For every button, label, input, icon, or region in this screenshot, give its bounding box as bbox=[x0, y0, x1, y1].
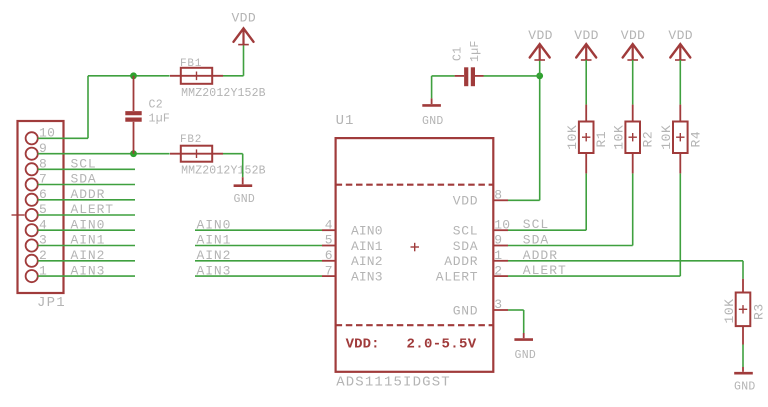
svg-text:1µF: 1µF bbox=[149, 112, 171, 125]
resistor R2 bbox=[625, 105, 640, 174]
label GND below U1 bbox=[515, 349, 537, 362]
net label AIN1 middle bbox=[197, 233, 232, 248]
power VDD symbol above R1 bbox=[576, 44, 596, 60]
net label ADDR right bbox=[523, 248, 558, 263]
svg-text:R1: R1 bbox=[594, 131, 609, 148]
JP1 pin 1 circle bbox=[26, 270, 38, 282]
U1 pin number 10 bbox=[494, 217, 510, 232]
svg-text:VDD: VDD bbox=[453, 194, 479, 209]
JP1 pin 9 circle bbox=[26, 148, 38, 160]
wire pin10 to VDD rail (net VDD) bbox=[38, 76, 134, 139]
svg-text:ADS1115IDGST: ADS1115IDGST bbox=[336, 375, 451, 391]
JP1 pin 9 number bbox=[39, 141, 47, 156]
net label AIN0 middle bbox=[197, 217, 232, 232]
U1 pin name AIN2 bbox=[351, 254, 383, 269]
svg-text:GND: GND bbox=[453, 303, 479, 318]
svg-text:2.0-5.5V: 2.0-5.5V bbox=[407, 337, 477, 353]
U1 pin number 7 bbox=[325, 263, 333, 278]
ferrite bead FB2 bbox=[170, 146, 223, 162]
svg-text:VDD: VDD bbox=[668, 28, 693, 43]
JP1 origin tick bbox=[12, 214, 25, 216]
ground symbol below U1 bbox=[514, 338, 533, 341]
resistor R3 bbox=[736, 293, 751, 327]
wire U1 pin3 to GND bbox=[493, 310, 523, 338]
JP1 pin 8 circle bbox=[26, 163, 38, 175]
svg-text:SDA: SDA bbox=[523, 233, 549, 248]
svg-text:10K: 10K bbox=[612, 125, 627, 150]
label GND left of C1 bbox=[422, 115, 444, 128]
svg-text:R2: R2 bbox=[641, 131, 656, 148]
net label AIN2 middle bbox=[197, 248, 232, 263]
value 1uF of C1 (rotated) bbox=[469, 40, 482, 62]
label R1 (rotated) bbox=[594, 131, 609, 148]
svg-text:AIN0: AIN0 bbox=[197, 217, 232, 232]
wire net ALERT from U1 pin2 to R4 bbox=[493, 173, 680, 276]
value 1uF of C2 bbox=[149, 112, 171, 125]
svg-text:ADDR: ADDR bbox=[71, 187, 106, 202]
U1 pin name SCL bbox=[453, 224, 479, 239]
label C1 (rotated) bbox=[452, 47, 465, 61]
U1 pin name AIN0 bbox=[351, 224, 383, 239]
power VDD symbol above C1 bbox=[530, 44, 550, 60]
wire net ADDR from JP1 bbox=[38, 199, 135, 201]
svg-text:R4: R4 bbox=[688, 131, 703, 148]
svg-text:10K: 10K bbox=[722, 298, 737, 323]
wire FB1 to VDD symbol bbox=[223, 45, 244, 76]
svg-text:ADDR: ADDR bbox=[523, 248, 558, 263]
junction node at C2 top bbox=[130, 72, 137, 79]
svg-text:1µF: 1µF bbox=[469, 40, 482, 62]
ground symbol below R3 bbox=[734, 372, 753, 375]
wire net AIN2 to U1 bbox=[195, 260, 336, 262]
op-amp/IC U1 body bbox=[336, 138, 494, 372]
wire net SCL from JP1 bbox=[38, 168, 135, 170]
wire net ALERT from JP1 bbox=[38, 214, 135, 216]
wire net SCL from U1 pin10 to R1 bbox=[493, 173, 586, 230]
JP1 pin 7 circle bbox=[26, 178, 38, 190]
svg-text:ADDR: ADDR bbox=[444, 254, 478, 269]
JP1 pin 3 number bbox=[39, 233, 47, 248]
junction node at C1/VDD bbox=[536, 73, 543, 80]
svg-text:AIN3: AIN3 bbox=[71, 263, 106, 278]
value ADS1115IDGST bbox=[336, 375, 451, 391]
net label ALERT left bbox=[71, 202, 115, 217]
svg-text:AIN1: AIN1 bbox=[351, 239, 383, 254]
wire R3 to GND bbox=[742, 326, 744, 372]
U1 pin number 6 bbox=[325, 248, 333, 263]
svg-text:4: 4 bbox=[325, 217, 333, 232]
wire net SDA from JP1 bbox=[38, 184, 135, 186]
svg-text:GND: GND bbox=[515, 349, 537, 362]
svg-text:AIN0: AIN0 bbox=[351, 224, 383, 239]
svg-text:SCL: SCL bbox=[453, 224, 479, 239]
connector JP1 body bbox=[18, 121, 64, 293]
wire VDD to R1 bbox=[585, 60, 587, 105]
JP1 pin 6 number bbox=[39, 187, 47, 202]
label VDD top-left bbox=[231, 11, 256, 26]
label R3 (rotated) bbox=[752, 303, 767, 320]
U1 pin name ALERT bbox=[436, 270, 479, 285]
svg-text:VDD: VDD bbox=[231, 11, 256, 26]
capacitor C2 bbox=[125, 76, 141, 154]
svg-text:ALERT: ALERT bbox=[71, 202, 115, 217]
net label ADDR left bbox=[71, 187, 106, 202]
svg-text:6: 6 bbox=[325, 248, 333, 263]
wire net AIN2 from JP1 bbox=[38, 260, 135, 262]
svg-text:JP1: JP1 bbox=[37, 295, 66, 311]
net label SDA left bbox=[71, 172, 97, 187]
wire net SDA from U1 pin9 to R2 bbox=[493, 173, 632, 245]
svg-text:MMZ2012Y152B: MMZ2012Y152B bbox=[181, 87, 266, 100]
label C2 bbox=[149, 99, 163, 112]
svg-text:7: 7 bbox=[325, 263, 333, 278]
U1 pin number 9 bbox=[494, 233, 502, 248]
JP1 pin 1 number bbox=[39, 263, 47, 278]
svg-text:SCL: SCL bbox=[523, 217, 549, 232]
JP1 pin 2 number bbox=[39, 248, 47, 263]
power VDD symbol top-left bbox=[234, 28, 254, 44]
svg-text:VDD: VDD bbox=[574, 28, 599, 43]
U1 pin name VDD bbox=[453, 194, 479, 209]
power VDD symbol above R2 bbox=[623, 44, 643, 60]
U1 origin cross bbox=[411, 243, 420, 252]
wire VDD pin8 to VDD rail bbox=[493, 76, 539, 200]
JP1 pin 6 circle bbox=[26, 194, 38, 206]
wire net ADDR from U1 pin1 to R3 bbox=[493, 261, 743, 293]
value 10K of R1 (rotated) bbox=[565, 125, 580, 150]
U1 pin name ADDR bbox=[444, 254, 478, 269]
U1 pin number 3 bbox=[494, 297, 502, 312]
JP1 pin 7 number bbox=[39, 172, 47, 187]
svg-text:U1: U1 bbox=[336, 113, 355, 129]
wire VDD to R2 bbox=[632, 60, 634, 105]
U1 pin number 2 bbox=[494, 263, 502, 278]
label GND below FB2 bbox=[234, 193, 256, 206]
net label AIN2 left bbox=[71, 248, 106, 263]
svg-text:SDA: SDA bbox=[71, 172, 97, 187]
U1 pin number 8 bbox=[494, 188, 502, 203]
value 10K of R2 (rotated) bbox=[612, 125, 627, 150]
value 10K of R3 (rotated) bbox=[722, 298, 737, 323]
net label SCL left bbox=[71, 157, 97, 172]
svg-text:AIN2: AIN2 bbox=[71, 248, 106, 263]
JP1 pin 5 number bbox=[39, 202, 47, 217]
JP1 pin 10 number bbox=[39, 126, 55, 141]
JP1 pin 4 number bbox=[39, 217, 47, 232]
svg-text:AIN0: AIN0 bbox=[71, 217, 106, 232]
JP1 pin 4 circle bbox=[26, 224, 38, 236]
net label ALERT right bbox=[523, 263, 567, 278]
net label AIN1 left bbox=[71, 233, 106, 248]
U1 pin name AIN1 bbox=[351, 239, 383, 254]
svg-text:ALERT: ALERT bbox=[523, 263, 567, 278]
wire pin9 to C2/FB2 (net GND side) bbox=[38, 153, 170, 155]
svg-text:C2: C2 bbox=[149, 99, 163, 112]
svg-text:AIN2: AIN2 bbox=[351, 254, 383, 269]
wire VDD to R4 bbox=[679, 60, 681, 105]
svg-text:FB2: FB2 bbox=[180, 134, 202, 146]
wire net AIN1 to U1 bbox=[195, 245, 336, 247]
ground symbol below FB2 bbox=[234, 184, 253, 187]
svg-text:AIN3: AIN3 bbox=[351, 270, 383, 285]
capacitor C1 bbox=[455, 67, 484, 86]
label U1 bbox=[336, 113, 355, 129]
svg-text:ALERT: ALERT bbox=[436, 270, 479, 285]
junction node at C2 bottom bbox=[130, 150, 137, 157]
label GND below R3 bbox=[734, 381, 756, 394]
value MMZ2012Y152B of FB1 bbox=[181, 87, 266, 100]
U1 pin name GND bbox=[453, 303, 479, 318]
U1 pin number 5 bbox=[325, 233, 333, 248]
JP1 pin 10 circle bbox=[26, 132, 38, 144]
svg-text:10K: 10K bbox=[565, 125, 580, 150]
label VDD above R2 bbox=[621, 28, 646, 43]
net label SCL right bbox=[523, 217, 549, 232]
label VDD above C1 bbox=[528, 28, 553, 43]
U1 pin name AIN3 bbox=[351, 270, 383, 285]
JP1 pin 8 number bbox=[39, 157, 47, 172]
U1 pin number 4 bbox=[325, 217, 333, 232]
wire net AIN3 from JP1 bbox=[38, 275, 135, 277]
svg-text:VDD: VDD bbox=[528, 28, 553, 43]
svg-text:C1: C1 bbox=[452, 47, 465, 61]
label R4 (rotated) bbox=[688, 131, 703, 148]
wire net AIN0 to U1 bbox=[195, 229, 336, 231]
svg-text:SDA: SDA bbox=[453, 239, 479, 254]
JP1 pin 3 circle bbox=[26, 239, 38, 251]
svg-text:R3: R3 bbox=[752, 303, 767, 320]
label JP1 bbox=[37, 295, 66, 311]
net label AIN3 middle bbox=[197, 263, 232, 278]
power VDD symbol above R4 bbox=[670, 44, 690, 60]
wire VDD rail to FB1 bbox=[134, 75, 170, 77]
resistor R1 bbox=[579, 105, 594, 174]
resistor R4 bbox=[673, 105, 688, 174]
svg-text:VDD:: VDD: bbox=[346, 337, 380, 353]
label VDD above R1 bbox=[574, 28, 599, 43]
ground symbol left of C1 bbox=[422, 104, 441, 107]
wire net AIN3 to U1 bbox=[195, 275, 336, 277]
value 10K of R4 (rotated) bbox=[659, 125, 674, 150]
svg-text:VDD: VDD bbox=[621, 28, 646, 43]
svg-text:GND: GND bbox=[422, 115, 444, 128]
svg-text:5: 5 bbox=[325, 233, 333, 248]
label VDD above R4 bbox=[668, 28, 693, 43]
wire FB2 to GND bbox=[223, 154, 243, 185]
svg-text:AIN3: AIN3 bbox=[197, 263, 232, 278]
wire C1 left to GND bbox=[432, 76, 455, 104]
net label SDA right bbox=[523, 233, 549, 248]
value MMZ2012Y152B of FB2 bbox=[181, 165, 266, 178]
U1 pin number 1 bbox=[494, 248, 502, 263]
label R2 (rotated) bbox=[641, 131, 656, 148]
svg-text:AIN1: AIN1 bbox=[197, 233, 232, 248]
svg-text:10K: 10K bbox=[659, 125, 674, 150]
JP1 pin 2 circle bbox=[26, 255, 38, 267]
wire VDD junction up to arrow bbox=[539, 60, 541, 76]
svg-text:SCL: SCL bbox=[71, 157, 97, 172]
svg-text:AIN2: AIN2 bbox=[197, 248, 232, 263]
ferrite bead FB1 bbox=[170, 68, 223, 84]
net label AIN3 left bbox=[71, 263, 106, 278]
U1 pin name SDA bbox=[453, 239, 479, 254]
U1 dashed separator bottom bbox=[336, 324, 494, 326]
svg-text:MMZ2012Y152B: MMZ2012Y152B bbox=[181, 165, 266, 178]
U1 dashed separator top bbox=[336, 184, 494, 186]
svg-text:AIN1: AIN1 bbox=[71, 233, 106, 248]
svg-text:FB1: FB1 bbox=[180, 58, 202, 70]
net label AIN0 left bbox=[71, 217, 106, 232]
label FB2 bbox=[180, 134, 202, 146]
svg-text:GND: GND bbox=[234, 193, 256, 206]
JP1 pin 5 circle bbox=[26, 209, 38, 221]
svg-text:GND: GND bbox=[734, 381, 756, 394]
wire C1 right to VDD junction bbox=[484, 75, 540, 77]
label FB1 bbox=[180, 58, 202, 70]
wire net AIN1 from JP1 bbox=[38, 245, 135, 247]
wire net AIN0 from JP1 bbox=[38, 229, 135, 231]
U1 technology text VDD: 2.0-5.5V bbox=[346, 337, 477, 353]
